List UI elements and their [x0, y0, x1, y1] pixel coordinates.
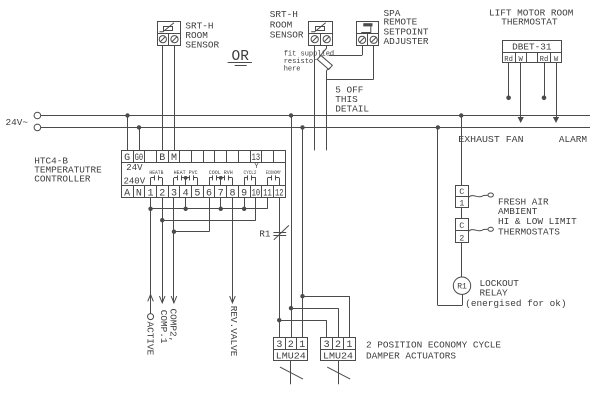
- svg-text:C: C: [459, 187, 464, 197]
- svg-text:CYCL2: CYCL2: [244, 170, 257, 176]
- svg-text:CONTROLLER: CONTROLLER: [34, 174, 91, 185]
- svg-text:SRT-H: SRT-H: [270, 9, 298, 20]
- svg-text:1: 1: [459, 198, 464, 208]
- svg-text:W: W: [519, 56, 524, 64]
- svg-text:REV.VALVE: REV.VALVE: [228, 306, 239, 357]
- svg-text:DETAIL: DETAIL: [335, 104, 369, 115]
- svg-text:B: B: [159, 153, 165, 164]
- svg-text:SENSOR: SENSOR: [185, 39, 219, 50]
- svg-text:COMP2,: COMP2,: [168, 309, 179, 343]
- svg-text:DBET-31: DBET-31: [512, 42, 552, 53]
- svg-text:R1: R1: [457, 283, 467, 292]
- svg-text:DAMPER ACTUATORS: DAMPER ACTUATORS: [366, 351, 456, 362]
- svg-text:EXHAUST FAN: EXHAUST FAN: [458, 134, 523, 145]
- svg-text:LMU24: LMU24: [323, 350, 353, 361]
- svg-text:ACTIVE: ACTIVE: [144, 322, 155, 356]
- svg-text:24V: 24V: [126, 163, 143, 173]
- svg-text:5: 5: [194, 188, 200, 199]
- svg-text:(energised for ok): (energised for ok): [465, 298, 566, 309]
- svg-text:M: M: [171, 153, 177, 164]
- svg-text:COOL RVH: COOL RVH: [209, 170, 233, 176]
- svg-text:COMP.1: COMP.1: [158, 310, 169, 344]
- svg-text:2: 2: [335, 340, 341, 351]
- svg-text:24V~: 24V~: [6, 117, 29, 128]
- svg-text:C: C: [459, 221, 464, 231]
- svg-text:N: N: [136, 188, 142, 199]
- svg-text:ECONOMY: ECONOMY: [266, 170, 281, 176]
- svg-text:1: 1: [346, 340, 352, 351]
- svg-text:2: 2: [459, 233, 464, 243]
- svg-text:ADJUSTER: ADJUSTER: [384, 36, 429, 47]
- svg-text:1: 1: [299, 340, 305, 351]
- svg-text:THERMOSTAT: THERMOSTAT: [501, 17, 558, 28]
- svg-text:THERMOSTATS: THERMOSTATS: [498, 226, 560, 237]
- svg-text:2 POSITION ECONOMY CYCLE: 2 POSITION ECONOMY CYCLE: [366, 340, 501, 351]
- svg-text:2: 2: [288, 340, 294, 351]
- svg-text:R1: R1: [259, 229, 271, 240]
- svg-text:HEATB: HEATB: [149, 170, 163, 176]
- svg-text:HEAT PVC: HEAT PVC: [174, 170, 198, 176]
- svg-text:RELAY: RELAY: [480, 288, 509, 299]
- svg-text:3: 3: [276, 340, 282, 351]
- svg-text:LMU24: LMU24: [276, 350, 306, 361]
- svg-text:240V: 240V: [124, 176, 146, 186]
- svg-text:here: here: [284, 65, 301, 73]
- svg-text:SENSOR: SENSOR: [270, 30, 304, 41]
- svg-text:ALARM: ALARM: [559, 134, 588, 145]
- svg-text:A: A: [124, 188, 130, 199]
- svg-text:3: 3: [324, 340, 330, 351]
